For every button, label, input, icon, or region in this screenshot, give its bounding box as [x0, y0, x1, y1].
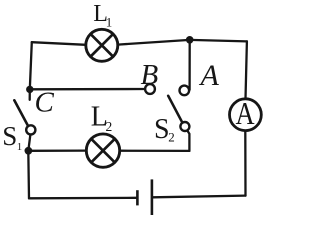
label S1 [2, 121, 22, 153]
wire top-left segment [32, 42, 86, 45]
terminal circle A (S2 top contact) [180, 86, 190, 96]
wire S2 lower (pivot to L2 wire) [187, 130, 190, 151]
ammeter A [230, 97, 262, 132]
svg-text:2: 2 [106, 119, 113, 134]
wire bottom-right segment [153, 196, 245, 198]
wire middle (C to B) [30, 88, 145, 91]
wire L2 left [28, 149, 86, 151]
node junction dot at S1 bottom [25, 147, 33, 155]
terminal circle B (end of middle wire) [145, 84, 155, 94]
svg-text:2: 2 [168, 130, 175, 145]
wire left upper (top corner to node C) [30, 42, 32, 100]
node C junction dot [26, 86, 33, 93]
wire S2 upper (node A down) [188, 40, 190, 90]
node junction dot on top wire [186, 36, 194, 44]
label S2 [154, 114, 175, 145]
label L1 [93, 1, 112, 30]
wire L2 right [120, 150, 189, 152]
battery (cell) [137, 179, 152, 215]
wire top-middle segment (L1 to node) [118, 40, 190, 45]
svg-text:1: 1 [106, 15, 113, 30]
svg-text:C: C [35, 87, 55, 119]
lamp L2 [86, 134, 119, 167]
svg-text:S: S [2, 121, 17, 151]
wire top-right segment [190, 40, 247, 42]
switch S2 blade [168, 96, 182, 123]
switch S2 pivot circle [180, 122, 189, 131]
wire left lower (corner to S1 node) [27, 151, 30, 199]
label L2 [91, 101, 112, 134]
svg-text:B: B [141, 59, 159, 91]
svg-text:A: A [235, 97, 254, 132]
wire right lower (ammeter to corner) [244, 131, 246, 196]
svg-text:1: 1 [17, 141, 23, 153]
svg-text:A: A [199, 59, 220, 92]
wire bottom-left segment [29, 197, 136, 200]
wire S1 stub (node to pivot circle) [28, 134, 30, 150]
wire right upper (to ammeter) [246, 41, 247, 99]
lamp L1 [86, 29, 118, 61]
switch S1 blade [14, 100, 28, 126]
switch S1 pivot circle [26, 125, 35, 134]
